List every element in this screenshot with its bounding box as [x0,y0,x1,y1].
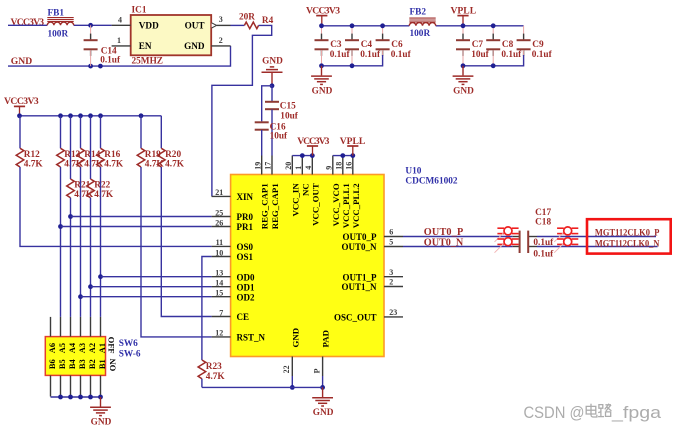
svg-text:MGT112CLK0_P: MGT112CLK0_P [595,228,660,238]
svg-text:OUT: OUT [185,20,205,30]
svg-text:GND: GND [184,41,205,51]
svg-text:10: 10 [215,248,223,257]
svg-text:0.1uf: 0.1uf [533,249,554,259]
svg-text:FB2: FB2 [410,7,427,17]
svg-text:100R: 100R [410,29,431,39]
svg-text:VCC3V3: VCC3V3 [4,96,39,107]
svg-text:NC: NC [300,183,310,196]
svg-text:C15: C15 [280,101,296,111]
svg-text:REG_CAP1: REG_CAP1 [260,183,270,229]
svg-text:PR1: PR1 [237,222,254,232]
svg-text:23: 23 [389,308,397,317]
svg-text:OS1: OS1 [237,252,254,262]
svg-text:A2: A2 [88,343,97,353]
svg-text:VCC_PLL1: VCC_PLL1 [341,183,351,228]
svg-text:2: 2 [219,36,223,45]
svg-text:OUT0_N: OUT0_N [341,242,377,252]
svg-text:21: 21 [215,188,223,197]
svg-text:OD1: OD1 [237,282,256,292]
svg-text:0.1uf: 0.1uf [391,50,412,60]
svg-text:GND: GND [290,328,300,348]
svg-text:VCC_VCO: VCC_VCO [331,183,341,226]
svg-text:6: 6 [389,228,393,237]
svg-text:ON: ON [108,359,117,372]
svg-text:0.1uf: 0.1uf [100,55,121,65]
svg-text:PR0: PR0 [237,212,254,222]
svg-text:R23: R23 [206,362,222,372]
svg-text:REG_CAP1: REG_CAP1 [270,183,280,229]
svg-text:20R: 20R [239,12,255,22]
svg-text:4.7K: 4.7K [206,372,226,382]
svg-text:GND: GND [453,86,474,96]
svg-text:B1: B1 [98,359,107,369]
svg-text:OD0: OD0 [237,272,256,282]
svg-text:EN: EN [139,41,152,51]
svg-text:25MHZ: 25MHZ [132,56,164,66]
svg-text:4: 4 [304,166,313,170]
svg-text:0.1uf: 0.1uf [360,50,381,60]
svg-text:C7: C7 [472,40,484,50]
svg-text:9: 9 [325,166,334,170]
svg-text:0.1uf: 0.1uf [330,50,351,60]
svg-text:GND: GND [91,418,112,428]
svg-text:4: 4 [118,15,122,24]
svg-text:0.1uf: 0.1uf [533,238,554,248]
svg-text:18: 18 [335,162,344,170]
svg-text:10uf: 10uf [280,112,298,122]
svg-text:5: 5 [389,238,393,247]
svg-text:100R: 100R [48,30,69,40]
svg-text:GND: GND [262,56,283,66]
svg-text:_fpga: _fpga [611,404,662,422]
svg-text:OFF: OFF [107,337,116,354]
svg-text:3: 3 [389,268,393,277]
svg-text:25: 25 [215,208,223,217]
svg-text:B5: B5 [58,359,67,369]
svg-text:A3: A3 [78,343,87,353]
svg-text:OUT0_N: OUT0_N [424,237,464,248]
svg-text:R4: R4 [262,16,274,26]
svg-text:26: 26 [215,218,223,227]
svg-text:VDD: VDD [139,20,159,30]
svg-text:4.7K: 4.7K [165,159,185,169]
svg-text:C18: C18 [535,218,551,228]
svg-text:7: 7 [219,308,223,317]
svg-text:OS0: OS0 [237,242,254,252]
svg-text:1: 1 [117,36,121,45]
svg-text:B4: B4 [68,359,77,370]
svg-text:VCC_OUT: VCC_OUT [310,183,320,226]
svg-text:12: 12 [215,329,223,338]
svg-text:VCC3V3: VCC3V3 [11,17,45,28]
svg-text:B3: B3 [78,359,87,369]
svg-text:CDCM61002: CDCM61002 [405,177,458,187]
svg-text:R12: R12 [24,150,40,160]
svg-text:OUT1_N: OUT1_N [341,282,377,292]
svg-text:C6: C6 [391,40,403,50]
svg-text:C9: C9 [532,40,544,50]
svg-text:17: 17 [264,162,273,170]
svg-text:4.7K: 4.7K [94,190,114,200]
svg-text:22: 22 [282,365,291,373]
svg-text:A1: A1 [98,343,107,353]
svg-text:MGT112CLK0_N: MGT112CLK0_N [595,239,660,249]
svg-text:13: 13 [215,269,223,278]
svg-text:3: 3 [219,15,223,24]
svg-text:B2: B2 [88,359,97,369]
svg-text:C17: C17 [535,208,551,218]
svg-text:XIN: XIN [237,192,254,202]
svg-text:GND: GND [312,86,333,96]
svg-text:SW6: SW6 [119,339,138,349]
svg-text:10uf: 10uf [270,132,288,142]
svg-text:14: 14 [215,279,223,288]
svg-text:20: 20 [284,162,293,170]
svg-text:OUT0_P: OUT0_P [424,227,463,238]
svg-text:R16: R16 [104,150,120,160]
svg-text:10uf: 10uf [471,50,489,60]
svg-text:VCC_IN: VCC_IN [290,183,300,217]
svg-text:0.1uf: 0.1uf [501,50,522,60]
svg-text:B6: B6 [48,359,57,369]
svg-text:19: 19 [253,162,262,170]
svg-text:SW-6: SW-6 [119,350,141,360]
svg-text:4.7K: 4.7K [104,159,124,169]
svg-text:RST_N: RST_N [237,333,266,343]
svg-text:PAD: PAD [321,330,331,347]
svg-text:2: 2 [389,278,393,287]
svg-text:P: P [312,368,321,373]
svg-text:R20: R20 [165,150,181,160]
svg-text:CE: CE [237,312,250,322]
svg-text:GND: GND [313,408,334,418]
svg-text:15: 15 [215,289,223,298]
svg-text:OUT1_P: OUT1_P [342,272,377,282]
svg-text:IC1: IC1 [132,5,147,15]
svg-text:1: 1 [294,166,303,170]
svg-text:A4: A4 [68,342,77,353]
svg-text:U10: U10 [405,167,421,177]
svg-text:OSC_OUT: OSC_OUT [334,313,377,323]
svg-text:C8: C8 [502,40,514,50]
svg-text:A6: A6 [48,343,57,353]
svg-text:R22: R22 [94,181,110,191]
svg-text:C3: C3 [330,40,342,50]
svg-text:GND: GND [11,56,32,67]
svg-text:A5: A5 [58,343,67,353]
svg-text:4.7K: 4.7K [24,159,44,169]
svg-text:FB1: FB1 [48,8,65,18]
svg-text:CSDN @: CSDN @ [524,404,585,422]
svg-text:0.1uf: 0.1uf [532,50,553,60]
svg-text:VCC_PLL2: VCC_PLL2 [351,183,361,229]
svg-text:C4: C4 [361,40,373,50]
svg-text:11: 11 [216,238,224,247]
svg-text:OD2: OD2 [237,292,256,302]
svg-text:16: 16 [345,162,354,170]
svg-text:OUT0_P: OUT0_P [342,232,377,242]
